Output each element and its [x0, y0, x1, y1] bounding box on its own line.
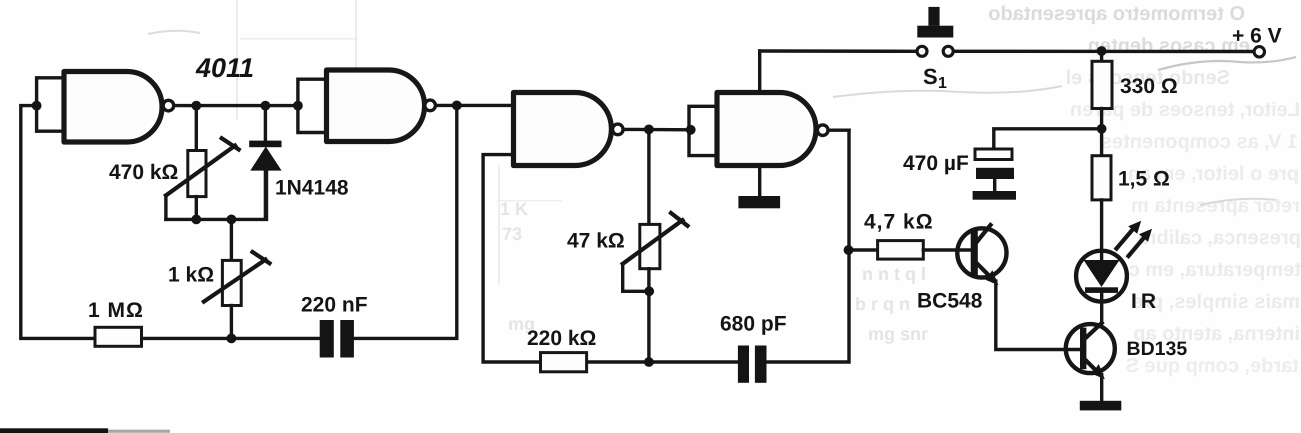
- nand gate U1b: [327, 70, 425, 142]
- resistor R5 220k body: [541, 353, 587, 372]
- wire: R1 wiper bend to node: [164, 195, 167, 219]
- wire: +6V rail left of switch: [760, 49, 916, 53]
- wire: bottom-left rail from 1M to 220nF and up to NAND2 output node: [142, 105, 457, 338]
- transistor Q2 BD135 circle: [1066, 324, 1115, 373]
- svg-text:1 K: 1 K: [500, 199, 528, 219]
- svg-text:b r q n: b r q n: [855, 294, 910, 314]
- svg-text:+ 6 V: + 6 V: [1232, 25, 1282, 48]
- transistor Q1 collector: [976, 225, 991, 244]
- wire: 330 bottom lead to junction: [1100, 109, 1103, 156]
- output bubble U1b: [425, 100, 436, 111]
- capacitor C2 680pF plates: [738, 346, 749, 383]
- wire: BC548 emitter to BD135 base: [996, 281, 1080, 350]
- terminal: +6V: [1254, 47, 1264, 57]
- transistor Q1 BC548 circle: [957, 228, 1006, 277]
- wire: 1.5 bottom lead to LED: [1100, 200, 1103, 260]
- resistor R8 4.7k body: [878, 241, 924, 260]
- svg-text:retor apresenta m: retor apresenta m: [1131, 195, 1300, 217]
- svg-text:4011: 4011: [195, 53, 254, 83]
- nand gate U1c: [514, 93, 612, 166]
- wire: feedback from NAND1 inputs to bottom-left rail: [21, 106, 95, 339]
- wire: NAND2 input bracket: [298, 79, 329, 132]
- resistor R2 1k trimmer body: [222, 260, 241, 305]
- svg-text:n n t q l: n n t q l: [862, 264, 926, 284]
- svg-text:330 Ω: 330 Ω: [1120, 75, 1178, 98]
- svg-text:1N4148: 1N4148: [275, 177, 349, 200]
- wire: node wire under 470k and diode: [166, 169, 267, 220]
- svg-text:O termometro apresentado: O termometro apresentado: [988, 3, 1245, 25]
- switch S1 pushbutton plunger: [928, 7, 939, 26]
- wire: NAND1 output to NAND2 input bracket: [174, 104, 298, 107]
- output bubble U1a: [163, 100, 174, 111]
- wire: diode top lead: [264, 106, 267, 141]
- wire: 1k bottom lead: [230, 306, 233, 339]
- wire: R4 wiper bend to junction: [623, 264, 650, 292]
- wire: 1k top lead: [230, 219, 233, 260]
- output bubble U1d: [817, 125, 828, 136]
- capacitor C1 220nF plates: [320, 320, 334, 358]
- wire: NAND2 output to NAND3 input: [436, 104, 513, 107]
- diode D1 1N4148 cathode bar: [249, 141, 281, 148]
- page rule bottom-left: [0, 428, 108, 433]
- wire: 470k bottom lead: [195, 197, 198, 220]
- wire: 4.7k right lead to BC548 base: [923, 248, 970, 251]
- wire: 47k top lead: [647, 129, 650, 224]
- svg-text:1 V, as componentes: 1 V, as componentes: [1101, 131, 1298, 153]
- wire: 470uF lower lead: [993, 179, 996, 192]
- wire: 330 top lead: [1100, 51, 1103, 61]
- svg-text:BD135: BD135: [1127, 338, 1188, 360]
- wire: NAND3 lower input from 220k rail: [483, 155, 540, 362]
- transistor Q2 collector: [1085, 323, 1102, 339]
- led D2 IR circle: [1076, 251, 1127, 302]
- svg-text:em casos denten: em casos denten: [1088, 35, 1250, 57]
- resistor R1 470k trimmer body: [188, 151, 206, 197]
- wire: NAND4 ground pin: [758, 166, 761, 197]
- wire: junction to 470uF: [994, 129, 1102, 150]
- junction dots left section: [32, 101, 42, 111]
- svg-text:1: 1: [938, 75, 947, 92]
- transistor Q1 emitter: [976, 262, 994, 280]
- led D2 cathode bar: [1085, 287, 1118, 293]
- wire: 470k top lead: [195, 106, 198, 151]
- resistor R4 47k trimmer body: [640, 224, 660, 268]
- trimmer R2 wiper arrow: [204, 252, 270, 302]
- junction dots right section: [644, 124, 654, 134]
- diode D1 1N4148 triangle: [250, 147, 281, 171]
- trimmer R1 wiper arrow: [166, 138, 239, 195]
- svg-text:BC548: BC548: [917, 290, 983, 313]
- wire: 220k rail to 680pF and up to NAND4 output: [587, 130, 849, 362]
- wire: 47k bottom lead down to rail: [647, 269, 650, 362]
- svg-text:470 kΩ: 470 kΩ: [109, 161, 178, 184]
- wire: LED cathode to BD135 collector: [1100, 292, 1103, 323]
- svg-text:1,5 Ω: 1,5 Ω: [1118, 168, 1170, 191]
- ground: 470uF: [973, 191, 1016, 200]
- wire: NAND1 input bracket: [37, 78, 66, 131]
- svg-text:220 kΩ: 220 kΩ: [527, 327, 596, 350]
- svg-text:mg snr: mg snr: [868, 324, 928, 344]
- transistor Q2 base bar: [1080, 328, 1086, 370]
- svg-text:680 pF: 680 pF: [720, 313, 787, 336]
- svg-text:presenca, calibra: presenca, calibra: [1137, 227, 1301, 249]
- wire: NAND4 power pin to rail: [758, 51, 761, 93]
- svg-text:73: 73: [502, 224, 522, 244]
- ground: BD135 emitter: [1080, 401, 1122, 411]
- ground: NAND4: [738, 196, 780, 208]
- svg-text:IR: IR: [1131, 290, 1160, 313]
- svg-text:47 kΩ: 47 kΩ: [567, 230, 625, 253]
- resistor R6 330 body: [1092, 61, 1112, 108]
- nand gate U1a: [64, 72, 162, 143]
- wire: NAND4 input bracket: [689, 106, 719, 155]
- switch S1 contacts: [917, 46, 927, 56]
- wire: NAND4 output to vertical: [829, 128, 850, 131]
- svg-text:220 nF: 220 nF: [301, 294, 368, 317]
- wire: NAND3 output to NAND4 bracket: [624, 128, 691, 132]
- trimmer R4 wiper arrow: [623, 213, 688, 264]
- led D2 emission arrows: [1117, 229, 1134, 249]
- wire: 4.7k left lead: [849, 248, 878, 251]
- svg-text:S: S: [923, 64, 938, 89]
- wire: BD135 emitter to ground: [1100, 375, 1103, 401]
- transistor Q2 emitter: [1085, 359, 1100, 374]
- led D2 triangle: [1084, 260, 1120, 287]
- wire: +6V rail right of switch: [955, 50, 1253, 54]
- svg-text:470 µF: 470 µF: [903, 152, 969, 175]
- capacitor C3 470uF plates: [975, 149, 1012, 160]
- svg-text:1 MΩ: 1 MΩ: [88, 299, 144, 322]
- svg-text:temperatura, em c: temperatura, em c: [1129, 259, 1301, 281]
- svg-text:4,7 kΩ: 4,7 kΩ: [864, 211, 934, 234]
- resistor R7 1.5 body: [1092, 156, 1111, 200]
- svg-text:1 kΩ: 1 kΩ: [168, 264, 214, 287]
- transistor Q1 base bar: [971, 229, 978, 277]
- resistor R3 1M body: [95, 327, 142, 346]
- output bubble U1c: [613, 124, 624, 135]
- nand gate U1d: [717, 93, 816, 166]
